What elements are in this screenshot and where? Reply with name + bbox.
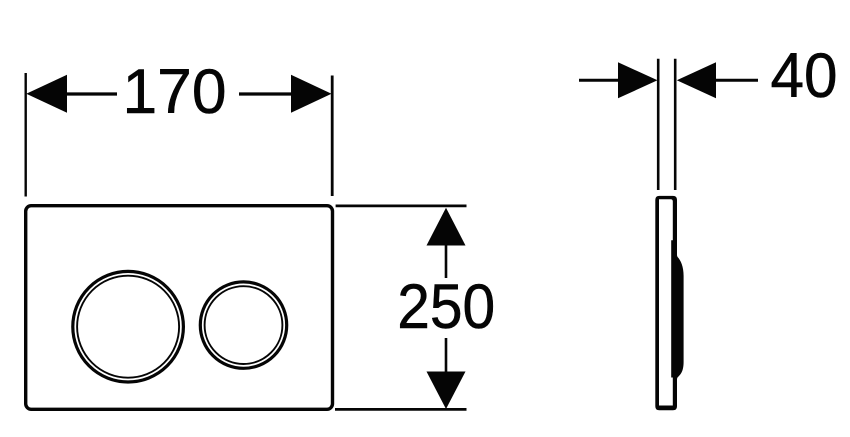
large flush button outer ring xyxy=(73,271,184,382)
side view plate profile silhouette xyxy=(655,196,683,410)
height dimension: down arrow xyxy=(427,372,466,410)
svg-text:170: 170 xyxy=(123,57,227,127)
thickness dimension: left extension line xyxy=(657,59,660,190)
width dimension: right arrow xyxy=(291,75,332,113)
front view plate outline xyxy=(26,206,333,410)
thickness dimension: right extension line xyxy=(674,59,677,190)
height dimension: bottom extension line xyxy=(335,408,467,411)
width dimension: left line segment xyxy=(65,92,117,95)
width dimension: right extension line xyxy=(331,76,334,197)
svg-text:40: 40 xyxy=(771,41,838,111)
width dimension: left arrow xyxy=(26,75,67,113)
small flush button outer ring xyxy=(200,282,286,368)
thickness dimension: left line segment xyxy=(579,79,620,82)
height dimension: lower line segment xyxy=(445,338,448,373)
thickness dimension: left arrow xyxy=(618,62,658,98)
thickness dimension: right line segment xyxy=(714,79,758,82)
thickness dimension: right arrow xyxy=(677,62,716,98)
large flush button inner ring xyxy=(77,276,179,378)
side view interior face xyxy=(659,199,673,405)
height dimension: top extension line xyxy=(336,204,467,207)
width dimension: right line segment xyxy=(239,92,293,95)
height dimension: upper line segment xyxy=(445,244,448,278)
height dimension: up arrow xyxy=(427,208,466,246)
width dimension: left extension line xyxy=(25,73,27,197)
small flush button inner ring xyxy=(205,286,283,364)
svg-text:250: 250 xyxy=(397,272,495,342)
